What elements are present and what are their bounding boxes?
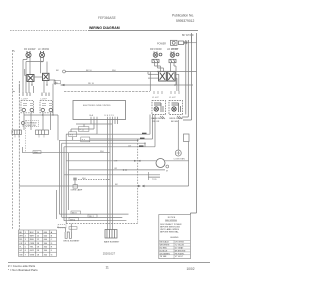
right bus L2 x195.5 bbox=[190, 33, 196, 215]
wire y139 bbox=[90, 138, 153, 140]
wire y221 bbox=[64, 220, 126, 222]
connector row left bbox=[12, 130, 49, 135]
surface switch SW2 bbox=[40, 101, 53, 113]
svg-text:OR: OR bbox=[114, 160, 118, 162]
svg-text:UNIT SW: UNIT SW bbox=[27, 125, 36, 127]
svg-text:RD OR: RD OR bbox=[153, 121, 160, 123]
right bus L1 x188.3 bbox=[182, 40, 188, 117]
convection fan motor bbox=[175, 150, 181, 156]
oven relay box 2 bbox=[169, 101, 183, 115]
surface unit RF bbox=[26, 51, 31, 58]
wire broil feed bbox=[57, 227, 65, 229]
svg-text:LEGEND: LEGEND bbox=[170, 237, 179, 239]
surface unit RR bbox=[153, 52, 162, 58]
svg-text:* = Non Illustrated Parts: * = Non Illustrated Parts bbox=[8, 268, 38, 272]
label box bus B left bbox=[54, 81, 60, 84]
svg-text:10/02: 10/02 bbox=[187, 267, 195, 271]
wire lamp right dashed bbox=[78, 179, 110, 181]
relay riser 3 bbox=[154, 115, 156, 147]
svg-text:WHT: WHT bbox=[30, 236, 35, 238]
wire bus C y91.3 bbox=[64, 90, 150, 92]
svg-text:WH WHITE: WH WHITE bbox=[160, 245, 171, 247]
svg-text:POWER: POWER bbox=[157, 42, 166, 45]
oven control EOC bbox=[73, 101, 126, 120]
wire y140 to dashed riser bbox=[59, 139, 137, 141]
connector mark y139 bbox=[140, 137, 145, 139]
svg-text:L1 H P: L1 H P bbox=[169, 97, 176, 99]
table text rows bbox=[19, 231, 53, 257]
cascade label 2 bbox=[69, 132, 77, 137]
svg-text:BAKE ELEMENT: BAKE ELEMENT bbox=[104, 241, 120, 244]
wire plug right y80 bbox=[49, 80, 55, 85]
svg-text:LR 2400W: LR 2400W bbox=[167, 48, 179, 51]
wire y134 bbox=[66, 133, 150, 135]
riser into relay area bbox=[148, 72, 150, 92]
label box y214 bbox=[71, 211, 81, 214]
EOC terminal drops right bbox=[108, 117, 118, 230]
dashed riser x137.7 bbox=[137, 140, 139, 222]
dashed stub x25.5 bbox=[25, 120, 27, 153]
wire relay bottom arrows bbox=[160, 116, 182, 119]
wire y162 bbox=[66, 142, 188, 187]
svg-text:PR PURPL: PR PURPL bbox=[175, 253, 184, 255]
footer rule bbox=[8, 262, 210, 264]
indicator lamp bbox=[22, 122, 25, 125]
svg-text:GY: GY bbox=[128, 145, 132, 147]
surface switch SW1 bbox=[21, 101, 34, 113]
arrow marks on riser bbox=[13, 51, 15, 92]
svg-text:ORN: ORN bbox=[30, 243, 35, 245]
svg-text:CONV FAN: CONV FAN bbox=[174, 158, 186, 161]
svg-text:WH: WH bbox=[19, 236, 23, 238]
svg-text:NOTICE: NOTICE bbox=[168, 217, 176, 219]
svg-text:RED: RED bbox=[30, 239, 35, 241]
riser x56 bbox=[55, 190, 57, 219]
oven relay box 1 bbox=[152, 101, 166, 115]
wire TB to bus bbox=[186, 36, 192, 43]
terminal block TB bbox=[171, 40, 197, 45]
svg-text:RD RED: RD RED bbox=[160, 248, 168, 250]
cascade wire 1 bbox=[76, 124, 112, 127]
svg-text:BL BLUE: BL BLUE bbox=[160, 250, 168, 252]
component box right bbox=[184, 134, 190, 142]
svg-text:B A: B A bbox=[90, 114, 94, 117]
wire y152 bbox=[23, 147, 111, 153]
plug block LR bbox=[167, 71, 175, 81]
svg-text:VT VIOLT: VT VIOLT bbox=[175, 256, 184, 258]
svg-text:BR BROWN: BR BROWN bbox=[175, 250, 186, 252]
small capacitor circle bbox=[166, 165, 169, 168]
harness bundle verticals bbox=[59, 134, 68, 223]
arrow bus B left end bbox=[61, 84, 65, 86]
cascade label 3 bbox=[81, 137, 90, 142]
svg-text:BK BLACK: BK BLACK bbox=[160, 241, 170, 244]
relay tick terminals bbox=[154, 91, 179, 94]
svg-text:GN GREEN: GN GREEN bbox=[160, 253, 171, 255]
plug block RF bbox=[27, 75, 34, 82]
connector mark y147 bbox=[139, 145, 144, 147]
wire out plug LR y78 bbox=[175, 78, 177, 91]
connector mark y134 bbox=[142, 132, 147, 134]
label box y217 bbox=[88, 214, 97, 217]
wire plug left bbox=[25, 69, 27, 76]
plug block RR bbox=[159, 71, 167, 81]
svg-text:FEF366ASE: FEF366ASE bbox=[98, 16, 116, 20]
svg-text:TOD: TOD bbox=[152, 179, 157, 181]
svg-text:WH 4: WH 4 bbox=[70, 219, 76, 221]
svg-text:WH: WH bbox=[82, 178, 86, 180]
convection motor bbox=[156, 159, 165, 168]
wire into plug RR y74 bbox=[148, 73, 159, 75]
dashed fuse box bbox=[58, 225, 66, 228]
receptacle RR bbox=[152, 59, 159, 62]
wire RR drops bbox=[155, 63, 164, 72]
ring terminal bus A bbox=[63, 70, 66, 73]
svg-text:L1 H P: L1 H P bbox=[152, 97, 159, 99]
terminal ticks above switch 1 bbox=[23, 93, 49, 97]
svg-text:WH: WH bbox=[34, 152, 38, 154]
right bus x185.8 bbox=[185, 40, 187, 115]
svg-text:BK WH RD: BK WH RD bbox=[182, 35, 194, 37]
wire out plug LR y74 bbox=[175, 74, 179, 91]
cascade wire 2 bbox=[71, 129, 94, 140]
svg-text:RD 2: RD 2 bbox=[89, 216, 95, 218]
svg-text:GRN: GRN bbox=[30, 255, 35, 257]
svg-text:YL YELLW: YL YELLW bbox=[175, 245, 184, 247]
broil element bbox=[65, 224, 71, 232]
wire bus B y85 bbox=[61, 84, 194, 86]
svg-text:D E 1 2 3: D E 1 2 3 bbox=[105, 115, 115, 117]
wire y143 bbox=[62, 143, 145, 147]
left riser x19.3 bbox=[18, 81, 20, 230]
cascade wire 3 bbox=[66, 133, 97, 135]
svg-text:P 12: P 12 bbox=[80, 129, 85, 131]
surface unit LF bbox=[39, 51, 44, 58]
svg-text:LF 1500W: LF 1500W bbox=[38, 48, 50, 51]
wire y147 bbox=[64, 146, 155, 148]
connector stubs bbox=[15, 135, 44, 138]
tick row above switches bbox=[19, 84, 33, 93]
wire y217 bbox=[62, 216, 123, 218]
wire y214 bbox=[59, 213, 128, 215]
wire y224 dashed bbox=[66, 223, 138, 225]
riser below bus B label bbox=[52, 84, 54, 115]
EOC terminal drops left bbox=[91, 117, 97, 134]
thermal cutout TOD bbox=[148, 175, 160, 177]
svg-text:25201027: 25201027 bbox=[103, 251, 116, 255]
svg-text:ELECTRONIC OVEN CONTROL: ELECTRONIC OVEN CONTROL bbox=[83, 105, 111, 107]
svg-text:WH: WH bbox=[100, 151, 104, 153]
svg-text:OVEN LAMP: OVEN LAMP bbox=[71, 189, 83, 192]
svg-text:TN TAN: TN TAN bbox=[160, 255, 167, 258]
receptacle LR bbox=[169, 59, 176, 62]
wire plug link bbox=[34, 76, 43, 78]
label switch box bbox=[26, 121, 38, 127]
wire color table bbox=[19, 230, 57, 256]
right bus N x191.5 bbox=[183, 33, 192, 120]
junction dot LF bbox=[41, 61, 43, 63]
wire motor left y168 bbox=[69, 169, 166, 171]
svg-text:RF 2400W: RF 2400W bbox=[24, 48, 36, 51]
wire bus A y71.5 bbox=[65, 71, 196, 73]
header rule bbox=[10, 30, 88, 32]
cascade label 1 bbox=[78, 127, 89, 132]
svg-text:RR 1500W: RR 1500W bbox=[150, 48, 162, 51]
left dashed riser x12.6 bbox=[12, 50, 14, 115]
bake element block bbox=[105, 230, 117, 239]
wire below switches y115 bbox=[24, 115, 58, 140]
svg-text:OR ORNG: OR ORNG bbox=[175, 242, 185, 244]
lamp switch bbox=[73, 178, 76, 180]
svg-text:GY GRAY: GY GRAY bbox=[175, 247, 184, 250]
svg-text:5995379012: 5995379012 bbox=[176, 19, 195, 23]
wire fan riser bbox=[177, 120, 179, 150]
wire sw drops bbox=[24, 113, 51, 130]
svg-text:BEFORE REMOVAL.: BEFORE REMOVAL. bbox=[160, 230, 179, 233]
svg-text:M: M bbox=[166, 171, 168, 173]
wire plug drops to bus bbox=[29, 81, 47, 94]
relay riser 2 bbox=[152, 115, 154, 140]
wire RF drops bbox=[23, 57, 30, 93]
wire LR drops bbox=[171, 63, 177, 85]
svg-text:Publication No.: Publication No. bbox=[172, 14, 194, 18]
svg-text:OR: OR bbox=[114, 168, 118, 170]
plug block LF bbox=[43, 73, 50, 80]
wire TOD left y175 bbox=[64, 174, 148, 176]
surface unit LR bbox=[170, 52, 179, 58]
svg-text:SEE WIRING: SEE WIRING bbox=[165, 220, 177, 222]
svg-text:BK WH: BK WH bbox=[171, 121, 178, 123]
wire LF drops bbox=[26, 57, 47, 93]
notes box bbox=[159, 215, 191, 259]
svg-text:BLK: BLK bbox=[30, 232, 34, 234]
svg-text:SURFACE: SURFACE bbox=[27, 121, 37, 124]
svg-text:BROIL ELEMENT: BROIL ELEMENT bbox=[64, 240, 81, 242]
label box broil wire bbox=[69, 227, 77, 230]
relay riser 1 bbox=[149, 115, 151, 135]
svg-text:WIRING DIAGRAM: WIRING DIAGRAM bbox=[89, 26, 120, 30]
svg-text:GRY: GRY bbox=[30, 250, 35, 252]
wire y186 with arrow bbox=[19, 185, 138, 187]
wire into plug RR y78 bbox=[148, 77, 159, 79]
oven lamp bbox=[73, 185, 78, 188]
svg-text:11: 11 bbox=[106, 266, 110, 270]
label box y221 bbox=[69, 218, 79, 221]
label box y152 left bbox=[33, 151, 41, 154]
svg-text:RD: RD bbox=[55, 82, 59, 84]
